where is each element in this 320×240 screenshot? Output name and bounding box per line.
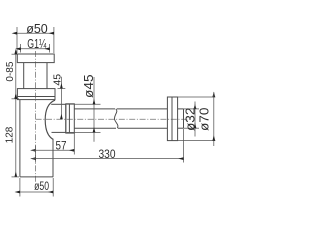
dimension 128: dim line: [15, 99, 17, 177]
chamber barrel right edge: [65, 104, 67, 132]
svg-text:ø45: ø45: [82, 74, 96, 98]
dimension G1 1/4: extension lines: [20, 44, 22, 53]
dimension o70: extension lines: [178, 96, 216, 98]
svg-text:128: 128: [4, 126, 15, 143]
svg-text:ø50: ø50: [34, 179, 49, 193]
svg-text:G1¼: G1¼: [27, 37, 46, 51]
outlet pipe bottom: [74, 127, 116, 129]
svg-text:ø50: ø50: [26, 22, 48, 36]
pipe end stub: [178, 108, 184, 110]
pipe break line: [114, 109, 117, 128]
chamber barrel top edge: [51, 103, 66, 105]
outlet pipe top: [74, 108, 115, 110]
dimension o32: dim line: [194, 109, 196, 128]
svg-text:0-85: 0-85: [5, 61, 16, 81]
dimension o50 top: dim line: [17, 32, 54, 34]
dimension 57: dim line: [36, 149, 75, 151]
dimension 330: dim line: [36, 158, 184, 160]
dimension o45: dim line: [93, 77, 95, 104]
dimension G1 1/4: dim line: [21, 48, 50, 50]
vertical centerline of trap: [35, 51, 37, 185]
cup body: [19, 100, 21, 177]
dimension 0-85: ticks and dim line: [12, 53, 19, 55]
svg-text:ø70: ø70: [196, 108, 211, 132]
svg-text:45: 45: [52, 74, 64, 86]
tail pipe: [23, 63, 25, 89]
wall flange: [167, 97, 177, 141]
dimension o50 bottom: dim line: [20, 191, 53, 193]
dimension o50 top: extension lines: [16, 27, 18, 53]
dimension o32: extension lines: [184, 108, 200, 110]
svg-text:57: 57: [56, 140, 67, 152]
top flange (cover plate): [17, 54, 54, 63]
dimension 45: tick, dim line: [58, 87, 66, 89]
chamber barrel bottom edge: [52, 131, 66, 133]
dimension 57: extension line right: [73, 133, 75, 154]
svg-text:330: 330: [99, 147, 116, 161]
outlet nut: [66, 104, 75, 133]
compression nut at cup top: [17, 89, 55, 100]
horizontal centerline of outlet pipe: [36, 118, 189, 120]
svg-text:ø32: ø32: [182, 108, 197, 132]
dimension o50 bottom: extension lines: [19, 178, 21, 197]
chamber curve (outer wall): [45, 100, 54, 139]
dimension o45: extension lines: [67, 103, 101, 105]
dimension o70: dim line: [213, 97, 215, 141]
dimension 330: extension line right: [183, 129, 185, 163]
